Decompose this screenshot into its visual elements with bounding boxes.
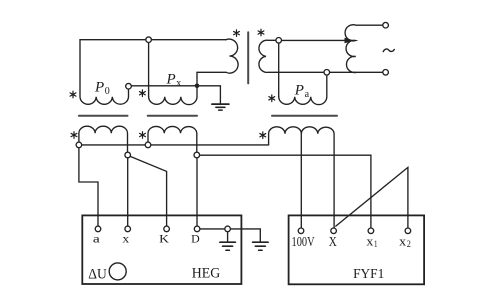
wire E down to ground G2: [227, 232, 229, 242]
node N6 (S2 right lower): [194, 152, 200, 158]
wire y=155.2 from N6 to x1: [200, 155, 371, 228]
wire from N6 down to terminal D: [196, 158, 198, 226]
winding S3 (secondary 3: 4 bumps up, right drop to X): [269, 127, 335, 228]
terminal x1: [368, 228, 374, 234]
svg-text:X: X: [329, 234, 337, 249]
wire W_L bottom run: [197, 71, 226, 73]
node N2 circle on W_R top: [276, 38, 282, 44]
svg-text:P: P: [94, 79, 104, 95]
svg-text:x: x: [176, 78, 181, 89]
polarity asterisk S2: [140, 132, 146, 139]
terminal E (ground circle in HEG): [225, 226, 231, 232]
terminal a: [95, 226, 101, 232]
node N3 (S1 left): [76, 142, 82, 148]
wire stepped from N3 to terminal a: [79, 148, 98, 226]
wire C1 to junction J1: [131, 85, 194, 87]
svg-text:2: 2: [407, 240, 411, 250]
winding W_O (output winding, 3 bumps left): [345, 25, 383, 73]
winding W_R (right half of isolating transformer, 2 bumps left): [259, 40, 276, 72]
junction J1 (solder dot): [195, 84, 200, 89]
winding S1 (secondary 1: 3 bumps up, left end at N3, right drop to N4): [79, 126, 128, 152]
core bar separator (vertical): [247, 32, 249, 83]
wire bus y=144.9 from N3 to S3 left end: [82, 144, 269, 146]
svg-text:a: a: [305, 89, 310, 100]
terminal x2: [405, 228, 411, 234]
winding W_L (left half of isolating transformer, 2 bumps right): [226, 39, 238, 73]
wire J1 to ground G1: [197, 86, 220, 104]
node N4 (S1 right lower): [125, 152, 131, 158]
ground G2: [220, 241, 236, 243]
terminal T1 (output top): [383, 22, 389, 28]
AC tilde symbol: [383, 49, 394, 52]
wire from N4 down to terminal x: [127, 158, 129, 226]
ground G3: [253, 241, 269, 243]
meter circle for dU: [109, 263, 126, 280]
svg-text:x: x: [399, 233, 407, 248]
wire top horizontal run: [80, 39, 226, 41]
polarity asterisk P0: [70, 91, 76, 98]
wire vertical from N1 down to Px: [148, 43, 150, 97]
polarity asterisk Pa: [269, 95, 275, 102]
svg-text:K: K: [159, 231, 169, 245]
terminal x: [125, 226, 131, 232]
ground G1: [212, 103, 229, 105]
svg-text:a: a: [93, 231, 101, 245]
polarity asterisk S3: [260, 132, 266, 139]
svg-text:FYF1: FYF1: [353, 267, 384, 282]
svg-text:x: x: [366, 233, 374, 248]
inductor Px (primary coil: 3 bumps down, right riser up through J1): [149, 72, 197, 104]
HEG box: [82, 215, 241, 284]
svg-text:100V: 100V: [292, 234, 315, 249]
winding S2 (secondary 2): [148, 126, 197, 152]
svg-text:1: 1: [374, 240, 378, 250]
terminal K: [164, 226, 170, 232]
polarity asterisk W_L: [234, 30, 240, 37]
node N5 (S2 left): [145, 142, 151, 148]
arrowhead: [345, 38, 355, 43]
core bar T1 (horizontal): [79, 115, 128, 117]
wire tap from S3 middle cusp to 100V: [300, 134, 302, 228]
wire arrow shaft from N2 to output winding: [282, 39, 346, 41]
core bar T3 (horizontal): [272, 115, 337, 117]
inductor Pa (primary coil: 3 bumps down, right riser to C2): [279, 75, 327, 105]
terminal X: [331, 228, 337, 234]
node N1 junction circle on top wire: [146, 37, 152, 43]
svg-text:x: x: [122, 231, 129, 245]
polarity asterisk W_R: [258, 29, 264, 36]
wire bottom run y=72.3 from W_R to C2: [276, 71, 324, 73]
terminal D: [194, 226, 200, 232]
wire diagonal X to x2 riser: [336, 167, 408, 228]
svg-text:P: P: [294, 82, 304, 98]
terminal 100V: [298, 228, 304, 234]
svg-text:D: D: [191, 231, 200, 245]
node C1 (P0 right end circle): [126, 83, 132, 89]
node C2 (Pa right end circle on bottom run): [324, 70, 330, 76]
core bar T2 (horizontal): [148, 115, 197, 117]
svg-text:P: P: [166, 71, 176, 87]
svg-text:ΔU: ΔU: [88, 267, 107, 283]
polarity asterisk S1: [71, 132, 77, 139]
wire D to E and to outside ground G3: [200, 229, 260, 242]
wire bottom run C2 to terminal T2: [330, 71, 383, 73]
terminal T2 (output bottom): [383, 70, 389, 76]
svg-text:0: 0: [105, 86, 110, 97]
inductor P0 (primary coil: left vertical, 3 bumps down, right riser): [80, 40, 129, 105]
wire Pa left vertical from N2: [278, 43, 280, 97]
wire diagonal from N4 to K riser: [130, 156, 166, 226]
polarity asterisk Px: [140, 90, 146, 97]
FYF1 box: [289, 215, 425, 284]
svg-text:HEG: HEG: [192, 266, 220, 282]
